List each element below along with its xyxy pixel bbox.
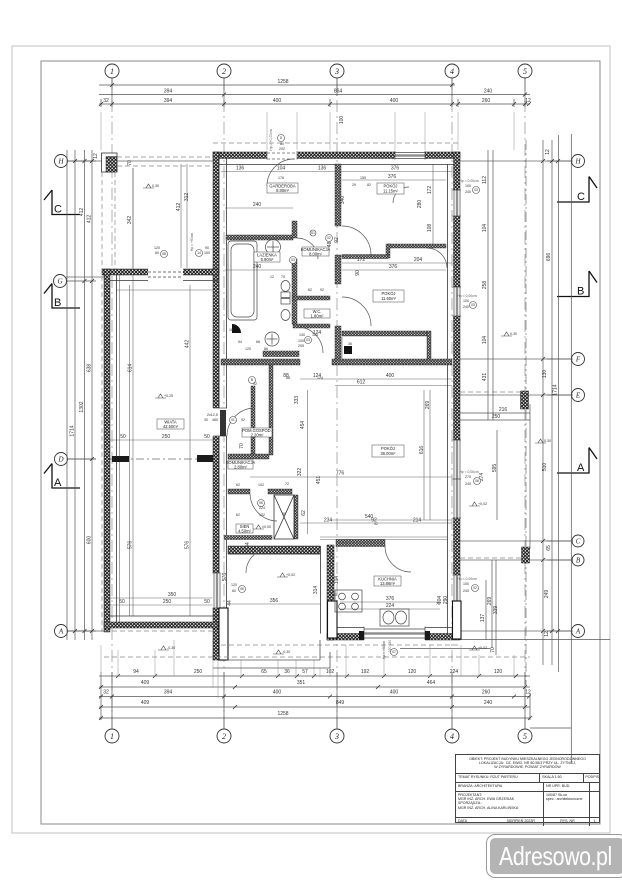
- svg-text:70: 70: [281, 275, 285, 279]
- svg-text:H: H: [574, 158, 581, 166]
- svg-text:70: 70: [239, 443, 245, 449]
- carport corner pillar: [102, 153, 118, 172]
- svg-text:192: 192: [361, 669, 370, 675]
- svg-text:92: 92: [320, 288, 324, 292]
- svg-text:12: 12: [525, 690, 531, 696]
- svg-text:86: 86: [264, 347, 268, 351]
- svg-text:600: 600: [87, 536, 93, 545]
- svg-text:2.80m²: 2.80m²: [234, 464, 247, 469]
- svg-text:1714: 1714: [553, 384, 559, 395]
- svg-text:42.50m²: 42.50m²: [163, 424, 179, 429]
- svg-text:14: 14: [197, 251, 201, 255]
- svg-text:2: 2: [222, 732, 226, 741]
- svg-text:66: 66: [256, 340, 260, 344]
- svg-text:0,30: 0,30: [510, 332, 517, 336]
- svg-text:12: 12: [544, 631, 550, 637]
- svg-text:92: 92: [374, 522, 378, 526]
- svg-text:124: 124: [317, 376, 323, 380]
- svg-text:2x12,5: 2x12,5: [207, 413, 218, 417]
- svg-text:54: 54: [238, 340, 242, 344]
- svg-text:220 150: 220 150: [388, 640, 392, 652]
- svg-text:13.86m²: 13.86m²: [380, 581, 396, 586]
- left dimension columns 1714 1302 412 638 600: [67, 150, 96, 640]
- svg-text:314: 314: [313, 586, 319, 595]
- axis circles 1-5 top and bottom, letter circles left and right: [54, 64, 585, 743]
- svg-text:1258: 1258: [277, 711, 288, 717]
- svg-text:696: 696: [546, 253, 552, 262]
- svg-text:150: 150: [204, 251, 210, 255]
- svg-text:130: 130: [542, 370, 548, 379]
- svg-text:400: 400: [390, 690, 399, 696]
- svg-text:269: 269: [487, 597, 493, 606]
- svg-text:A: A: [577, 462, 585, 474]
- svg-text:356: 356: [270, 598, 279, 604]
- exterior wall bottom kitchen (axis A): [327, 634, 460, 641]
- svg-text:224: 224: [450, 669, 459, 675]
- svg-text:03: 03: [474, 188, 478, 192]
- svg-text:595: 595: [492, 464, 498, 473]
- svg-text:62: 62: [308, 288, 312, 292]
- svg-text:82: 82: [367, 183, 371, 187]
- carport mid division piers: [112, 455, 213, 462]
- svg-text:234: 234: [324, 518, 333, 524]
- svg-text:102: 102: [259, 513, 265, 517]
- svg-text:88: 88: [286, 376, 290, 380]
- svg-text:4: 4: [450, 732, 454, 741]
- svg-text:616: 616: [419, 446, 425, 455]
- svg-text:120: 120: [154, 246, 160, 250]
- stacked window dimension labels: [154, 142, 471, 593]
- svg-text:376: 376: [386, 596, 395, 602]
- svg-text:C: C: [54, 204, 62, 216]
- washbasin lazienka: [266, 240, 281, 255]
- svg-text:240: 240: [253, 202, 262, 208]
- svg-text:394: 394: [164, 98, 173, 104]
- svg-text:70: 70: [490, 647, 496, 653]
- top dimension rows 1258 / 394 864 240 / 32 394 400 400 260 12: [99, 78, 530, 107]
- svg-text:+0,25: +0,25: [164, 394, 173, 398]
- svg-text:3: 3: [334, 67, 339, 76]
- svg-text:12: 12: [270, 275, 274, 279]
- svg-text:90: 90: [355, 270, 361, 276]
- carport wall left (axis 1): [104, 269, 110, 632]
- svg-text:Hp = +90cm: Hp = +90cm: [190, 233, 194, 252]
- svg-text:A: A: [54, 477, 62, 489]
- svg-text:240: 240: [463, 589, 469, 593]
- svg-text:B: B: [54, 297, 61, 309]
- svg-text:351: 351: [297, 680, 306, 686]
- svg-text:02: 02: [327, 236, 331, 240]
- interior dimension lines: [104, 164, 452, 622]
- svg-text:57: 57: [302, 669, 308, 675]
- svg-text:2.20m²: 2.20m²: [251, 432, 264, 437]
- svg-text:260: 260: [482, 98, 491, 104]
- svg-text:249: 249: [544, 590, 550, 599]
- svg-text:400: 400: [390, 98, 399, 104]
- svg-text:270: 270: [465, 475, 471, 479]
- room name label boxes: [157, 183, 404, 586]
- svg-text:60: 60: [155, 251, 159, 255]
- svg-text:+0,02: +0,02: [478, 646, 487, 650]
- svg-text:451: 451: [316, 476, 322, 485]
- svg-text:36: 36: [284, 669, 290, 675]
- svg-text:A: A: [575, 628, 581, 636]
- svg-text:431: 431: [482, 373, 488, 382]
- svg-text:100: 100: [465, 184, 471, 188]
- section marks left: [44, 190, 80, 488]
- svg-text:A: A: [58, 628, 64, 636]
- svg-text:07: 07: [392, 650, 396, 654]
- kitchen stove with 4 burners: [335, 590, 362, 612]
- svg-text:400: 400: [273, 690, 282, 696]
- kitchen double sink: [380, 609, 409, 626]
- svg-text:50: 50: [120, 434, 126, 440]
- letter axis connector lines H G D A / H F E C B A: [66, 161, 572, 631]
- exterior wall right (axis 4): [454, 152, 461, 601]
- svg-text:376: 376: [388, 174, 397, 180]
- svg-text:8.00m²: 8.00m²: [309, 251, 322, 256]
- section marks right: [557, 177, 597, 474]
- svg-text:104: 104: [277, 166, 286, 172]
- svg-text:65: 65: [261, 669, 267, 675]
- svg-text:44: 44: [227, 600, 233, 606]
- porch steps: [213, 640, 330, 668]
- svg-text:72: 72: [285, 482, 289, 486]
- svg-text:Hp = +0,00cm: Hp = +0,00cm: [269, 129, 273, 150]
- inner border frame: [41, 61, 600, 824]
- svg-text:Hp = +90cm: Hp = +90cm: [382, 641, 386, 660]
- svg-text:258: 258: [482, 281, 488, 290]
- axis grid dashed verticals: [112, 78, 525, 729]
- svg-text:0,30: 0,30: [152, 184, 159, 188]
- svg-text:08: 08: [162, 252, 166, 256]
- toilet wc: [281, 310, 290, 321]
- svg-text:214: 214: [413, 518, 422, 524]
- right dimension columns 696 510 249 1714: [400, 134, 610, 762]
- svg-text:8.80m²: 8.80m²: [276, 188, 289, 193]
- svg-text:H: H: [57, 158, 64, 166]
- svg-text:376: 376: [389, 264, 398, 270]
- svg-text:62: 62: [236, 483, 240, 487]
- svg-text:120: 120: [245, 347, 251, 351]
- windows and door openings: [148, 151, 461, 660]
- svg-text:394: 394: [164, 89, 173, 95]
- svg-text:240: 240: [484, 700, 493, 706]
- svg-text:50: 50: [204, 599, 210, 605]
- svg-text:124: 124: [312, 333, 318, 337]
- svg-text:280: 280: [417, 200, 423, 209]
- svg-text:Hp = 0,00cm: Hp = 0,00cm: [459, 470, 478, 474]
- svg-text:136: 136: [318, 166, 327, 172]
- svg-text:412: 412: [79, 208, 85, 217]
- svg-text:260: 260: [482, 690, 491, 696]
- svg-text:250: 250: [163, 599, 172, 605]
- watermark Adresowo.pl: [487, 835, 622, 877]
- door gap left wall: [213, 408, 228, 436]
- svg-text:Hp = 0,00cm: Hp = 0,00cm: [459, 179, 478, 183]
- floor level marks (triangles): [143, 184, 546, 654]
- svg-text:02: 02: [473, 586, 477, 590]
- svg-text:70: 70: [127, 160, 133, 166]
- svg-text:32: 32: [103, 690, 109, 696]
- svg-text:8: 8: [280, 136, 282, 140]
- svg-text:S1: S1: [311, 231, 315, 235]
- svg-text:442: 442: [185, 340, 191, 349]
- svg-text:412: 412: [176, 203, 182, 212]
- svg-text:102: 102: [258, 483, 264, 487]
- svg-text:-0,30: -0,30: [167, 646, 175, 650]
- svg-text:0,30: 0,30: [544, 439, 551, 443]
- svg-text:50: 50: [119, 599, 125, 605]
- svg-text:1.80m²: 1.80m²: [311, 313, 324, 318]
- svg-text:60: 60: [282, 512, 286, 516]
- svg-text:120: 120: [231, 583, 237, 587]
- svg-text:104: 104: [482, 224, 488, 233]
- svg-text:250: 250: [194, 669, 203, 675]
- svg-text:312: 312: [184, 193, 190, 202]
- svg-text:409: 409: [141, 700, 150, 706]
- svg-text:C: C: [576, 538, 581, 546]
- svg-text:204: 204: [414, 257, 423, 263]
- svg-text:Hp = 0,00cm: Hp = 0,00cm: [457, 294, 476, 298]
- svg-text:+0,02: +0,02: [478, 502, 487, 506]
- terrace pillar at axis B: [522, 547, 530, 563]
- svg-text:480: 480: [212, 418, 218, 422]
- svg-text:50: 50: [204, 434, 210, 440]
- svg-text:±0,00: ±0,00: [262, 525, 271, 529]
- svg-text:G: G: [57, 278, 62, 286]
- svg-text:12: 12: [525, 98, 531, 104]
- svg-text:5: 5: [523, 732, 527, 741]
- bottom dimension rows with 1258 total: [99, 672, 530, 729]
- carport wall top (axis G): [102, 269, 218, 275]
- svg-text:3: 3: [334, 732, 339, 741]
- svg-text:112: 112: [482, 176, 488, 184]
- vestibule wall (entrance): [228, 546, 320, 554]
- svg-text:32: 32: [103, 98, 109, 104]
- svg-text:120: 120: [408, 669, 417, 675]
- svg-text:612: 612: [357, 380, 366, 386]
- svg-text:333: 333: [294, 396, 300, 405]
- svg-text:1258: 1258: [277, 79, 288, 85]
- svg-text:11.60m²: 11.60m²: [381, 296, 396, 301]
- svg-text:01: 01: [231, 418, 235, 422]
- svg-text:2: 2: [222, 67, 226, 76]
- carport wall bottom: [104, 622, 218, 628]
- svg-text:60: 60: [232, 589, 236, 593]
- svg-text:5.90m²: 5.90m²: [261, 257, 274, 262]
- svg-text:240: 240: [463, 305, 469, 309]
- toilet lazienka: [281, 281, 290, 292]
- svg-text:06: 06: [475, 479, 479, 483]
- sanitary and kitchen fixtures: [228, 240, 409, 627]
- bathtub in lazienka: [228, 241, 257, 320]
- svg-text:36.00m²: 36.00m²: [380, 451, 396, 456]
- terrace pillar at axis E: [521, 391, 529, 409]
- svg-text:400: 400: [386, 373, 395, 379]
- svg-text:11.15m²: 11.15m²: [383, 189, 398, 194]
- svg-text:1714: 1714: [70, 425, 76, 436]
- svg-text:03: 03: [471, 303, 475, 307]
- svg-text:638: 638: [87, 364, 93, 373]
- svg-text:202: 202: [279, 147, 285, 151]
- svg-text:12: 12: [93, 153, 99, 159]
- svg-text:29: 29: [352, 183, 356, 187]
- door swing arcs: [227, 159, 447, 573]
- svg-text:1302: 1302: [79, 401, 85, 412]
- svg-text:100: 100: [339, 116, 345, 125]
- svg-text:614: 614: [128, 364, 134, 373]
- svg-text:E: E: [575, 392, 581, 400]
- svg-text:224: 224: [259, 506, 265, 510]
- interior partition walls: [221, 164, 452, 547]
- svg-text:62: 62: [301, 510, 307, 516]
- svg-text:269: 269: [425, 401, 431, 410]
- floor drain quarter circle: [232, 324, 241, 333]
- svg-text:172: 172: [427, 186, 433, 195]
- svg-text:137: 137: [480, 614, 486, 623]
- svg-text:1: 1: [110, 67, 114, 76]
- carport top wall door gap: [148, 268, 183, 282]
- title block: [455, 754, 600, 823]
- svg-text:104: 104: [334, 576, 340, 585]
- wall inner face lines: [110, 152, 460, 660]
- svg-text:216: 216: [499, 407, 508, 413]
- svg-text:224: 224: [386, 603, 395, 609]
- svg-text:C: C: [577, 191, 585, 203]
- svg-text:40: 40: [333, 593, 337, 597]
- svg-text:65: 65: [546, 545, 552, 551]
- svg-text:92: 92: [334, 237, 340, 243]
- svg-text:5: 5: [523, 67, 527, 76]
- svg-text:Hp = 0,00cm: Hp = 0,00cm: [457, 577, 476, 581]
- svg-text:409: 409: [141, 680, 150, 686]
- svg-text:03: 03: [306, 338, 310, 342]
- dashed roof overhang and terrace outline: [102, 143, 530, 657]
- svg-text:94: 94: [133, 669, 139, 675]
- svg-text:350: 350: [168, 592, 177, 598]
- svg-text:576: 576: [128, 541, 134, 550]
- svg-text:4: 4: [450, 67, 454, 76]
- svg-text:36: 36: [348, 342, 352, 346]
- svg-text:250: 250: [162, 434, 171, 440]
- svg-text:322: 322: [297, 468, 303, 477]
- svg-text:454: 454: [300, 421, 306, 430]
- svg-text:108: 108: [427, 224, 433, 233]
- svg-text:76: 76: [436, 602, 440, 606]
- svg-text:4.50m²: 4.50m²: [238, 528, 251, 533]
- svg-text:400: 400: [273, 98, 282, 104]
- exterior wall between house and carport (axis 2): [213, 152, 219, 660]
- svg-text:05: 05: [259, 501, 263, 505]
- svg-text:290: 290: [443, 596, 449, 605]
- svg-text:104: 104: [482, 336, 488, 345]
- washbasin wc: [265, 332, 279, 346]
- svg-text:205: 205: [298, 344, 304, 348]
- wall kitchen/vestibule: [327, 545, 334, 640]
- svg-text:240: 240: [465, 190, 471, 194]
- svg-text:16: 16: [229, 328, 233, 332]
- svg-text:240: 240: [484, 89, 493, 95]
- svg-text:B: B: [576, 557, 581, 565]
- svg-text:776: 776: [336, 471, 345, 477]
- svg-text:140: 140: [299, 333, 305, 337]
- svg-text:90: 90: [205, 246, 209, 250]
- svg-text:412: 412: [87, 215, 93, 224]
- svg-text:1: 1: [110, 732, 114, 741]
- svg-text:+0,02: +0,02: [286, 573, 295, 577]
- window/door callout circles: [161, 135, 481, 656]
- svg-text:100: 100: [463, 582, 469, 586]
- svg-text:30: 30: [204, 418, 208, 422]
- svg-text:F: F: [575, 356, 581, 364]
- svg-text:240: 240: [465, 482, 471, 486]
- svg-text:B: B: [577, 286, 584, 298]
- svg-text:62: 62: [236, 513, 240, 517]
- svg-text:376: 376: [391, 166, 400, 172]
- svg-text:03: 03: [291, 258, 295, 262]
- svg-text:864: 864: [334, 89, 343, 95]
- svg-text:92: 92: [253, 382, 257, 386]
- svg-text:155: 155: [360, 176, 366, 180]
- svg-text:576: 576: [222, 573, 228, 582]
- svg-text:849: 849: [336, 700, 345, 706]
- svg-text:-0,30: -0,30: [282, 650, 290, 654]
- svg-text:12: 12: [545, 149, 551, 155]
- svg-text:D: D: [57, 456, 63, 464]
- svg-text:80: 80: [280, 142, 284, 146]
- svg-text:464: 464: [427, 680, 436, 686]
- svg-text:394: 394: [164, 690, 173, 696]
- svg-text:510: 510: [542, 463, 548, 472]
- svg-text:100: 100: [463, 299, 469, 303]
- svg-text:250: 250: [492, 414, 501, 420]
- svg-text:06: 06: [240, 587, 244, 591]
- svg-text:120: 120: [494, 669, 503, 675]
- svg-text:92: 92: [241, 418, 245, 422]
- svg-text:576: 576: [185, 541, 191, 550]
- svg-text:136: 136: [236, 166, 245, 172]
- exterior wall top (axis H): [213, 152, 460, 159]
- svg-text:100: 100: [298, 339, 304, 343]
- duct shaft with X cross: [274, 495, 294, 539]
- svg-text:342: 342: [127, 216, 133, 225]
- svg-text:339: 339: [493, 606, 499, 615]
- svg-text:176: 176: [278, 176, 284, 180]
